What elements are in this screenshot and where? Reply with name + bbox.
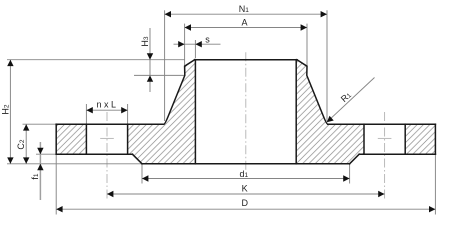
dimension K bolt circle diameter [107, 193, 385, 195]
hatched section right half of flange body [296, 60, 435, 164]
bore wall left [194, 60, 196, 164]
svg-text:A: A [241, 18, 247, 28]
extension line N1 left [164, 10, 166, 121]
centerline right bolt hole [384, 112, 386, 201]
dimension H2 overall height [9, 60, 11, 164]
extension line flange top level (C2) [23, 123, 57, 125]
dimension N1 hub base diameter [165, 13, 327, 15]
svg-text:f1: f1 [30, 173, 40, 180]
dimension s wall thickness [174, 43, 221, 45]
leader R1 hub fillet radius [327, 78, 375, 123]
flange bottom surface left [56, 153, 132, 155]
centerline flange axis [245, 52, 247, 170]
neck bevel, wall, taper and fillet right [297, 60, 328, 125]
dimension A welding end outside diameter [185, 27, 307, 29]
flange top surface left [56, 123, 164, 125]
bolt hole right edge (left hole) [127, 124, 129, 154]
dimension d1 sealing face diameter [142, 178, 350, 180]
svg-text:D: D [242, 198, 249, 208]
extension line n x L left [85, 104, 87, 124]
extension line A/s left [184, 24, 186, 66]
dimension n x L bolt holes [86, 109, 127, 111]
svg-text:R1: R1 [339, 90, 353, 104]
centerline left bolt hole [106, 112, 108, 201]
extension line flange bottom level (f1) [36, 153, 56, 155]
svg-text:d1: d1 [239, 169, 248, 179]
extension line s right [194, 40, 196, 58]
extension line A right [306, 24, 308, 66]
extension line N1 right [326, 10, 328, 121]
bolt hole left edge (left hole) [85, 124, 87, 154]
extension line n x L right [127, 104, 129, 124]
neck top face edge [195, 59, 297, 61]
extension line D left [55, 154, 57, 214]
flange top surface right [328, 123, 436, 125]
flange outer edge right [434, 124, 436, 154]
center tick left bolt hole [100, 137, 114, 139]
center tick right bolt hole [378, 137, 392, 139]
dimension D flange outside diameter [56, 208, 435, 210]
bolt hole cutout left [86, 124, 127, 154]
extension line D right [434, 154, 436, 214]
svg-text:N1: N1 [239, 4, 250, 14]
svg-text:K: K [242, 183, 248, 193]
sealing face chamfer left [132, 154, 142, 164]
bore wall right [295, 60, 297, 164]
dimension f1 sealing face height [39, 142, 41, 200]
bolt hole cutout right [364, 124, 405, 154]
svg-text:H2: H2 [1, 104, 11, 115]
sealing face bottom edge [142, 163, 350, 165]
extension line taper start level (H3) [134, 74, 185, 76]
bolt hole right edge (right hole) [404, 124, 406, 154]
bolt hole left edge (right hole) [363, 124, 365, 154]
svg-text:H3: H3 [140, 36, 150, 47]
extension line d1 left [141, 164, 143, 183]
extension line neck top level (H2/H3) [7, 59, 185, 61]
svg-text:C2: C2 [16, 139, 26, 150]
extension line d1 right [349, 164, 351, 183]
dimension H3 welding end height [149, 28, 151, 92]
extension line sealing face level (H2/C2/f1) [7, 163, 142, 165]
svg-text:n x L: n x L [97, 100, 117, 110]
svg-text:s: s [205, 35, 210, 45]
dimension C2 flange thickness [25, 124, 27, 164]
flange outer edge left [55, 124, 57, 154]
flange bottom surface right [359, 153, 435, 155]
neck bevel, wall, taper and fillet left [164, 60, 195, 125]
hatched section left half of flange body [56, 60, 195, 164]
sealing face chamfer right [350, 154, 360, 164]
